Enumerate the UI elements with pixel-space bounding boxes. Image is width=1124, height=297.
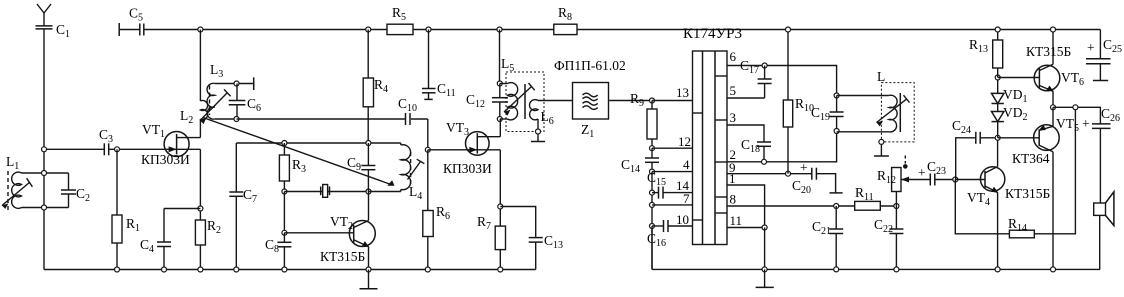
IC U1 К174УР3 body	[693, 51, 728, 245]
node rail/R13	[995, 27, 1000, 32]
svg-text:КТ315Б: КТ315Б	[1026, 44, 1071, 59]
transistor VT3	[466, 132, 501, 156]
node L box terminal	[879, 139, 884, 144]
node pin6/C17	[762, 63, 767, 68]
wire VT6 collector to rail	[1052, 30, 1054, 65]
wire pin11 to ground rail	[764, 228, 766, 270]
capacitor C23 polarized	[918, 165, 955, 186]
wire L6 bottom to ground	[537, 119, 539, 142]
node R7 ground	[498, 267, 503, 272]
wire VT1 source down	[199, 149, 201, 220]
node VT4 base	[953, 177, 958, 182]
capacitor C19	[830, 93, 844, 134]
wire top supply rail	[144, 29, 1101, 31]
inductor L5	[508, 83, 518, 120]
wire bottom ground rail right	[652, 268, 1100, 270]
speaker BA1	[1094, 192, 1114, 270]
node rail/L2	[198, 27, 203, 32]
L4 adjust tick	[408, 159, 425, 179]
wire pin6	[727, 66, 837, 96]
node C21 ground	[834, 267, 839, 272]
antenna WA1	[37, 4, 51, 26]
node R3 bottom	[282, 189, 287, 194]
wire VT2 collector	[368, 192, 370, 221]
wire VT4 collector	[997, 138, 999, 167]
node pin4 rail	[650, 169, 655, 174]
node R11/R12/C22	[894, 204, 899, 209]
node C7 ground	[234, 267, 239, 272]
capacitor C9	[361, 143, 375, 192]
wire rail to C12	[499, 30, 501, 84]
node C6 bottom	[234, 117, 239, 122]
wire pin1	[727, 185, 765, 228]
capacitor C6	[229, 84, 246, 120]
capacitor C24	[956, 132, 998, 180]
resistor R3	[279, 143, 289, 192]
node VT2 base	[282, 230, 287, 235]
node R1 top	[115, 147, 120, 152]
resistor R10	[783, 30, 792, 174]
capacitor C12	[492, 84, 508, 120]
wire pin11	[727, 227, 765, 229]
capacitor C3	[104, 142, 110, 156]
node output/R14	[1073, 105, 1078, 110]
diode VD2	[992, 112, 1004, 138]
node VD2/C24/VT4	[995, 135, 1000, 140]
node pin11	[762, 225, 767, 230]
wire C19 top to L	[837, 95, 889, 97]
svg-text:КТ315Б: КТ315Б	[320, 249, 365, 264]
wire L5 bottom	[500, 118, 508, 120]
node R6 ground	[425, 267, 430, 272]
capacitor C13	[529, 238, 543, 270]
wire L2 column from rail	[199, 30, 201, 102]
wire pin8	[727, 205, 855, 207]
wire VT6 base	[998, 77, 1040, 79]
resistor R13	[993, 30, 1003, 78]
wire Z1 out	[609, 100, 652, 102]
capacitor C16	[652, 220, 693, 232]
capacitor C22	[889, 206, 903, 269]
resistor R2	[195, 220, 205, 270]
wire VT6 emitter to out	[1052, 91, 1054, 107]
transistor VT5	[1034, 125, 1060, 152]
wire VT3 drain up	[499, 119, 501, 137]
L1 adjust arrow	[2, 178, 32, 209]
L5 core line	[524, 84, 526, 119]
svg-text:7: 7	[683, 191, 690, 206]
wire base to R14	[955, 180, 1009, 234]
node rail/R4	[366, 27, 371, 32]
resistor R8	[554, 24, 577, 34]
transformer L5 L6 box dotted	[506, 72, 544, 132]
terminal bar X2	[253, 77, 255, 90]
transistor VT2	[284, 221, 375, 248]
node pin7 rail	[650, 202, 655, 207]
wire VT5 emitter to out	[1052, 107, 1054, 126]
filter Z1	[573, 83, 609, 120]
capacitor C14	[645, 148, 659, 171]
node rail/R10	[786, 27, 791, 32]
wire VT4 base	[955, 179, 985, 181]
wire middle rail left riser	[651, 226, 653, 269]
inductor L6	[529, 100, 538, 120]
node antenna/C3	[42, 147, 47, 152]
L4 core dashed	[410, 152, 412, 184]
node rail/VT6	[1051, 27, 1056, 32]
svg-text:4: 4	[683, 157, 690, 172]
wire C19 bottom to L	[837, 131, 889, 133]
wire pin9	[727, 173, 812, 175]
svg-text:12: 12	[678, 134, 691, 149]
diode VD1	[992, 78, 1004, 112]
wire collector bus y143	[236, 142, 400, 144]
node rail/C12	[497, 27, 502, 32]
svg-text:6: 6	[730, 49, 737, 64]
node ground rail center	[762, 267, 767, 272]
svg-text:ФП1П-61.02: ФП1П-61.02	[554, 58, 626, 73]
capacitor C15	[652, 187, 693, 199]
node C8 ground	[282, 267, 287, 272]
terminal bar X1	[118, 23, 120, 36]
wire output to C26	[1053, 107, 1100, 124]
ground bar under L6	[531, 141, 545, 143]
svg-text:КП303И: КП303И	[141, 152, 190, 167]
wire C10 to VT3 gate column	[427, 119, 429, 150]
resistor R7	[495, 226, 505, 269]
wire pin3	[727, 125, 764, 142]
wire VT3 source down	[499, 150, 501, 226]
L1 core dashed	[7, 171, 9, 212]
node C12 top	[497, 81, 502, 86]
capacitor C7	[229, 192, 243, 270]
wire crystal line	[284, 191, 368, 193]
node C4 ground	[162, 267, 167, 272]
node C15 rail	[650, 190, 655, 195]
svg-text:КТ315Б: КТ315Б	[1005, 186, 1050, 201]
wire R3 to C8 node	[283, 192, 285, 233]
capacitor C20 polarized	[800, 160, 836, 193]
L core line	[899, 93, 901, 132]
L2 L3 adjust arrow	[200, 89, 231, 124]
ground bar under C20	[830, 192, 843, 194]
capacitor C10	[405, 112, 411, 126]
wire VT5 collector to ground	[1052, 152, 1054, 270]
svg-text:К174УР3: К174УР3	[683, 26, 742, 42]
node tank top	[42, 171, 47, 176]
inductor L1	[12, 172, 22, 208]
wire pin2	[727, 131, 837, 162]
node VT4 emitter ground	[995, 267, 1000, 272]
inductor L box dotted	[881, 83, 914, 142]
wire tank top	[22, 172, 69, 174]
ground symbol main left	[360, 270, 378, 289]
node R1 ground	[115, 267, 120, 272]
wire rail segment	[651, 172, 653, 270]
capacitor C17	[758, 66, 772, 99]
resistor R4	[363, 30, 373, 144]
wire tank bottom	[22, 207, 69, 209]
capacitor C26 polarized	[1082, 116, 1111, 203]
L5 adjust arrow	[504, 83, 535, 116]
capacitor C25 polarized	[1086, 30, 1111, 81]
node crystal right	[366, 189, 371, 194]
capacitor C21	[829, 206, 843, 269]
node pin2/C18	[762, 159, 767, 164]
wire VT3 gate	[428, 149, 478, 151]
wire VT2 emitter	[368, 247, 370, 270]
resistor R1	[112, 149, 122, 269]
inductor L	[889, 95, 897, 132]
wire L6 to Z1	[538, 100, 573, 102]
node VT5 collector ground	[1051, 267, 1056, 272]
resistor R5	[387, 24, 413, 34]
node R4 bottom	[366, 141, 371, 146]
potentiometer R12	[892, 156, 931, 207]
capacitor C4	[157, 209, 171, 270]
inductor L2	[200, 100, 207, 119]
node C22 ground	[894, 267, 899, 272]
node R2 ground	[198, 267, 203, 272]
svg-text:L: L	[877, 69, 885, 84]
wire C5 left stub	[119, 29, 140, 31]
node tank bottom	[42, 205, 47, 210]
node pin9/R10	[786, 171, 791, 176]
ground symbol main right	[756, 269, 774, 287]
wire to C13	[500, 207, 535, 238]
ground bar under C11	[424, 98, 432, 100]
node rail/C11	[426, 27, 431, 32]
svg-text:8: 8	[730, 192, 737, 207]
wire L5 top	[500, 83, 508, 85]
wire C7 corner	[235, 143, 237, 192]
wire L2 to VT1 drain	[199, 119, 201, 138]
node VT3 gate	[425, 147, 430, 152]
wire pin12	[652, 147, 693, 149]
svg-text:13: 13	[676, 85, 689, 100]
node VT2 emitter ground	[366, 267, 371, 272]
L2 L3 core dashed	[209, 86, 211, 116]
L adjust arrow	[877, 95, 910, 126]
transistor VT4	[980, 167, 1004, 193]
node L6 box terminal	[536, 129, 541, 134]
wire pin5	[727, 97, 765, 99]
node C6 top	[234, 81, 239, 86]
node R13/VT6 base	[995, 75, 1000, 80]
wire gate line VT1	[44, 148, 177, 150]
resistor R11	[855, 201, 897, 210]
node R7 top	[498, 204, 503, 209]
inductor L3	[207, 83, 215, 119]
svg-text:5: 5	[730, 83, 737, 98]
capacitor C8	[277, 233, 291, 270]
node C16 rail	[650, 224, 655, 229]
resistor R6	[423, 150, 433, 270]
svg-text:КТ364: КТ364	[1012, 151, 1050, 166]
inductor L4	[369, 143, 411, 192]
ground under L	[874, 145, 889, 156]
node pin8/C21	[834, 204, 839, 209]
node R3 top	[282, 141, 287, 146]
wire L3 bottom	[215, 118, 237, 120]
crystal ZQ1	[321, 185, 330, 198]
wire pin7	[652, 204, 693, 206]
svg-text:+: +	[800, 160, 808, 175]
svg-text:1: 1	[729, 171, 736, 186]
resistor R9	[647, 101, 657, 149]
svg-text:+: +	[918, 165, 926, 180]
wire pin13	[652, 100, 693, 102]
svg-text:+: +	[1087, 40, 1095, 55]
svg-text:+: +	[1082, 116, 1090, 131]
capacitor C1	[36, 26, 53, 29]
capacitor C11	[422, 30, 436, 100]
wire antenna column	[43, 29, 45, 270]
wire VT4 emitter	[997, 193, 999, 270]
capacitor C2	[61, 173, 76, 208]
wire C6 bottom to C10	[237, 118, 428, 120]
svg-text:КП303И: КП303И	[443, 161, 492, 176]
wire VT5 base	[998, 137, 1039, 139]
svg-text:10: 10	[676, 212, 689, 227]
transistor VT6	[1034, 64, 1060, 91]
gang arrow to L4	[203, 118, 395, 186]
node pin12 rail	[650, 146, 655, 151]
capacitor C18	[757, 142, 771, 162]
svg-text:11: 11	[730, 213, 743, 228]
svg-text:3: 3	[730, 110, 737, 125]
node Z1/R9/pin13	[650, 98, 655, 103]
node C12 bottom	[497, 117, 502, 122]
wire source to C4	[164, 208, 200, 210]
wire pin4	[652, 171, 693, 173]
resistor R14	[1009, 107, 1075, 238]
node output VT6/VT5	[1051, 105, 1056, 110]
node VT1 source	[198, 206, 203, 211]
capacitor C5	[140, 24, 144, 36]
transistor VT1	[164, 132, 200, 157]
wire L3 top	[215, 83, 254, 85]
wire bottom ground rail left	[44, 269, 536, 271]
